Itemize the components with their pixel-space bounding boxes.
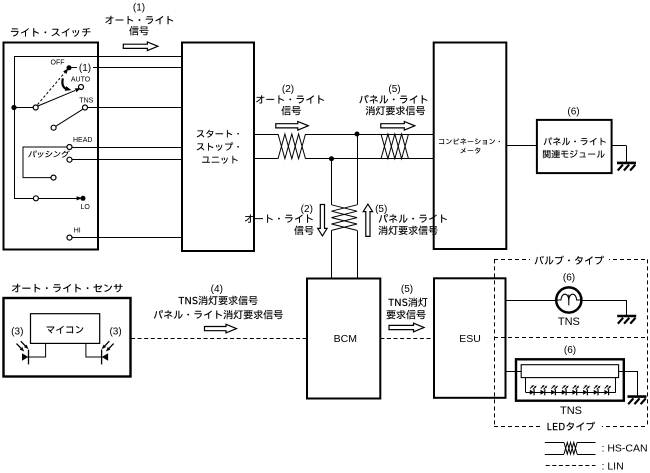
- svg-text:HI: HI: [74, 227, 81, 234]
- wire LED chain drop right: [615, 378, 617, 393]
- switch arm dashed to OFF (prev position): [38, 73, 65, 105]
- light arrows into right photodiode: [104, 341, 113, 349]
- label auto-light top line2: [281, 106, 300, 115]
- photodiode right: [102, 350, 109, 365]
- label panel-light top line1: [359, 95, 427, 104]
- junction dot on bus: [11, 105, 16, 110]
- contact head-arm lower: [51, 125, 56, 130]
- wire OFF contact to start-stop unit: [69, 67, 182, 69]
- wire bus to LO contact: [14, 198, 33, 200]
- arrowhead light right b: [100, 345, 106, 351]
- svg-text:(6): (6): [564, 345, 576, 356]
- wire LED chain drop left: [525, 378, 527, 393]
- arrowhead light left a: [20, 347, 26, 353]
- wire microcomputer to right photodiode: [86, 343, 102, 357]
- legend HS-CAN wire top right: [577, 442, 595, 444]
- svg-text:TNS: TNS: [79, 97, 93, 104]
- wire passing loop: [23, 147, 67, 178]
- label panel-light top line2: [366, 106, 425, 115]
- contact HEAD: [67, 145, 72, 150]
- label panel light off request: [154, 310, 283, 319]
- microcomputer box: [31, 314, 100, 344]
- wire switch common vertical bus: [14, 56, 16, 198]
- label combination meter line2: [461, 148, 481, 154]
- arrowhead arm at AUTO: [75, 86, 82, 92]
- svg-text:: LIN: : LIN: [602, 460, 624, 472]
- label (1) on OFF wire background: [77, 62, 93, 74]
- ground LED module: [628, 397, 647, 405]
- contact TNS: [83, 105, 88, 110]
- twisted pair vertical: [332, 205, 358, 231]
- svg-text:(6): (6): [563, 272, 575, 283]
- label microcomputer: [47, 326, 84, 334]
- label auto-light vertical line1: [245, 214, 313, 222]
- svg-text:BCM: BCM: [334, 333, 357, 345]
- wire ESU to TNS bulb: [506, 300, 557, 302]
- twisted pair right: [381, 134, 409, 159]
- label combination meter line1: [439, 138, 500, 144]
- ESU box: [434, 278, 506, 398]
- dashed box right edge: [647, 259, 649, 426]
- arrowhead dashed arm at OFF: [63, 67, 70, 74]
- svg-text:(1): (1): [133, 3, 145, 14]
- wire LED module to ground: [619, 371, 637, 373]
- wire CAN-H vertical lower: [357, 230, 359, 278]
- LED chain diodes D1-D8: [530, 384, 612, 395]
- svg-text:LO: LO: [81, 204, 91, 211]
- arrowhead light right a: [105, 347, 111, 353]
- label panel-light vertical line2: [378, 226, 437, 235]
- wire CAN-L vertical upper: [331, 159, 333, 205]
- label TNS off request: [179, 296, 258, 305]
- auto-light sensor box: [4, 298, 131, 377]
- wire top contact to start-stop unit: [14, 56, 182, 58]
- light switch box: [4, 43, 99, 250]
- TNS bulb lamp: [556, 287, 581, 312]
- label module line2: [543, 150, 605, 158]
- svg-text:(5): (5): [388, 84, 400, 95]
- svg-text:OFF: OFF: [51, 60, 65, 67]
- wire module ground drop: [626, 146, 628, 162]
- legend HS-CAN wire bottom: [545, 454, 564, 456]
- LED module outer box: [516, 359, 624, 400]
- svg-text:(3): (3): [109, 327, 121, 338]
- label start-stop unit line3: [202, 156, 238, 164]
- label auto-light signal line2: [129, 26, 148, 35]
- ground TNS bulb: [617, 316, 636, 324]
- arrowhead light left b: [24, 345, 30, 351]
- dashed box top edge: [494, 259, 648, 261]
- wire lower HEAD contact to start-stop unit: [72, 159, 182, 161]
- block arrow (2) right: [276, 122, 309, 131]
- svg-text:AUTO: AUTO: [71, 76, 91, 83]
- dashed divider bulb/LED: [494, 337, 648, 339]
- svg-text:HEAD: HEAD: [73, 137, 92, 144]
- legend LIN dashed: [546, 465, 596, 467]
- block arrow (5) right: [381, 122, 415, 131]
- label auto-light signal line1: [105, 16, 173, 24]
- block arrow (5) up: [363, 204, 372, 236]
- arrowhead LO arm: [77, 196, 83, 200]
- svg-text:(6): (6): [567, 106, 579, 117]
- wire bus to pivot: [14, 107, 33, 109]
- LIN dashed sensor to BCM: [131, 338, 307, 340]
- svg-text:(5): (5): [375, 204, 387, 215]
- label auto-light vertical line2: [294, 226, 313, 235]
- wire module to ground: [612, 145, 627, 147]
- switch arm head lower to TNS: [56, 109, 83, 126]
- label bulb type background: [530, 254, 609, 265]
- wire LED ground drop: [637, 371, 639, 396]
- legend twisted pair: [564, 443, 577, 455]
- svg-text:(2): (2): [301, 204, 313, 215]
- label auto-light sensor: [12, 284, 123, 293]
- wire bulb to ground: [581, 300, 626, 302]
- junction node on CAN-L: [329, 156, 334, 161]
- ground module: [617, 163, 636, 171]
- LIN dashed BCM to ESU: [380, 338, 434, 340]
- svg-text:(4): (4): [211, 284, 223, 295]
- legend HS-CAN wire bottom right: [577, 454, 595, 456]
- contact LO left: [33, 196, 38, 201]
- wire TNS contact to start-stop unit: [88, 107, 183, 109]
- photodiode left: [22, 350, 29, 365]
- label auto-light top line1: [256, 95, 324, 103]
- contact HI: [67, 235, 72, 240]
- light arrows into left photodiode: [17, 341, 26, 349]
- svg-text:(3): (3): [11, 327, 23, 338]
- BCM box: [307, 279, 380, 399]
- label TNS off mid line2: [387, 310, 426, 319]
- wire microcomputer to left photodiode: [29, 343, 46, 357]
- svg-text:TNS: TNS: [558, 316, 580, 328]
- label LED type: [548, 422, 596, 431]
- wire CAN-H SSU to twist: [254, 134, 278, 136]
- label TNS off mid line1: [388, 298, 427, 307]
- wire meter to module: [506, 145, 537, 147]
- wire CAN-L twist to meter: [306, 158, 434, 160]
- label module line1: [544, 137, 606, 145]
- wire LED chain: [526, 392, 616, 394]
- contact LO dot: [81, 196, 86, 201]
- arrowhead curved arrow: [65, 86, 72, 92]
- wire ESU to LED module: [506, 371, 522, 373]
- svg-text:(2): (2): [282, 84, 294, 95]
- panel-light module box: [537, 120, 612, 173]
- contact OFF dot: [67, 65, 72, 70]
- switch arm pivot to AUTO: [38, 90, 75, 106]
- label passing (italic): [28, 150, 70, 157]
- dashed box bottom edge: [494, 426, 648, 428]
- wire HI contact to start-stop unit: [72, 237, 182, 239]
- contact below HEAD: [67, 157, 72, 162]
- block arrow (1) auto-light signal: [123, 42, 158, 51]
- svg-text:(1): (1): [79, 63, 91, 74]
- combination meter box: [434, 43, 507, 250]
- LED module resistor bar: [521, 365, 618, 378]
- junction node on CAN-H: [355, 132, 360, 137]
- label light switch: [11, 28, 91, 37]
- wire CAN-H twist to meter: [306, 134, 434, 136]
- label start-stop unit line1: [197, 130, 239, 138]
- label LED type background: [540, 421, 602, 432]
- block arrow (2) down: [318, 205, 327, 236]
- block arrow (5) mid: [389, 323, 424, 332]
- curved arrow OFF to AUTO: [62, 78, 66, 89]
- start-stop unit box U1: [182, 43, 254, 252]
- label start-stop unit line2: [197, 142, 239, 151]
- wire CAN-H vertical upper: [357, 134, 359, 205]
- switch arm LO: [38, 198, 78, 200]
- wire CAN-L vertical lower: [331, 230, 333, 278]
- twisted pair left: [278, 134, 306, 159]
- svg-text:: HS-CAN: : HS-CAN: [602, 442, 648, 454]
- label panel-light vertical line1: [379, 214, 447, 223]
- block arrow (4): [205, 324, 237, 333]
- svg-text:TNS: TNS: [560, 405, 582, 417]
- svg-text:ESU: ESU: [459, 333, 481, 345]
- contact AUTO: [79, 85, 84, 90]
- wire bulb ground drop: [626, 300, 628, 315]
- wire HEAD contact to start-stop unit: [72, 147, 182, 149]
- wire CAN-L SSU to twist: [254, 158, 278, 160]
- contact pivot (moving contact): [33, 105, 38, 110]
- contact passing arm end: [51, 175, 56, 180]
- dashed box bulb/LED type left edge: [494, 259, 496, 426]
- label bulb type: [535, 256, 604, 265]
- legend HS-CAN wire top: [545, 442, 564, 444]
- svg-text:(5): (5): [401, 284, 413, 295]
